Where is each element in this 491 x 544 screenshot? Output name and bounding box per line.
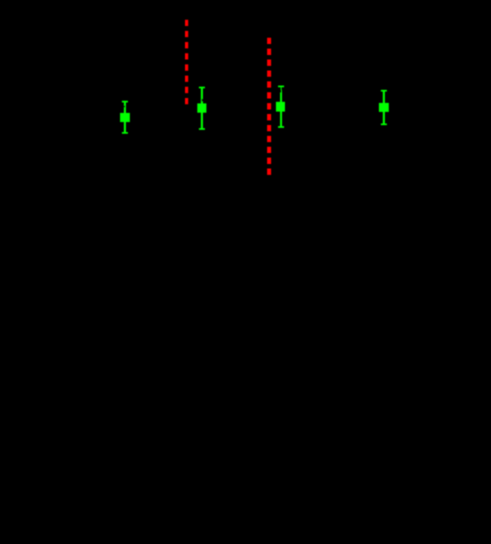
data point 4: green square with error bar [379, 90, 389, 125]
data point 1: green square with error bar [120, 101, 130, 134]
data point 2: green square with error bar [197, 87, 206, 130]
red dashed vertical line L2 [267, 38, 271, 175]
data point 3: green square with error bar [276, 86, 285, 128]
red dashed vertical line L1 [185, 20, 188, 105]
